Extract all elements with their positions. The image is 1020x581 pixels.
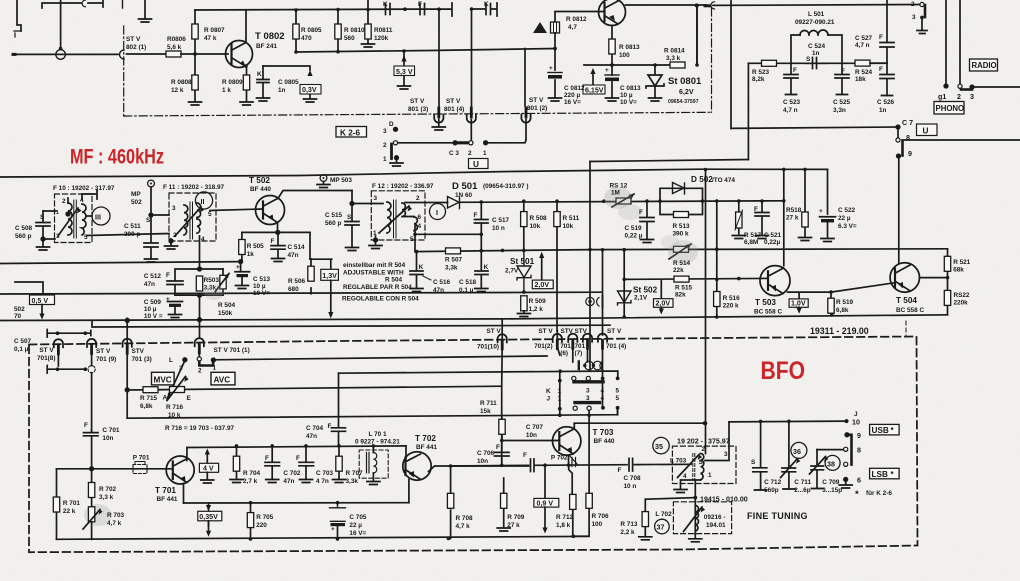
wire rail W2 to STV801(2) [524,49,526,107]
capacitor C514 [271,232,285,258]
wire yC base row [624,278,767,279]
capacitor C712 [753,421,767,489]
L702 winding [695,506,698,532]
svg-text:4: 4 [201,236,205,243]
resistor R0806 [166,51,181,57]
svg-text:6: 6 [857,477,861,485]
svg-text:120k: 120k [374,35,389,42]
svg-text:+: + [819,208,823,215]
svg-text:R 716: R 716 [166,404,183,411]
wire L703 pin4 ground [681,480,701,489]
svg-text:801 (2): 801 (2) [527,105,547,112]
svg-text:R 523: R 523 [752,69,769,76]
svg-text:C 516: C 516 [433,279,450,286]
svg-text:S: S [40,214,45,221]
svg-text:R 509: R 509 [529,298,546,305]
svg-text:375.97: 375.97 [708,438,730,446]
svg-text:g1: g1 [938,93,946,101]
svg-text:R 705: R 705 [256,514,273,521]
resistor R711 [501,418,503,440]
wire 701(10) drop [501,320,504,466]
transformer F12 box [371,191,425,240]
svg-text:701 (4): 701 (4) [606,343,626,350]
wire input line [15,53,118,55]
svg-text:R 715: R 715 [140,395,157,402]
resistor R0805 [295,10,297,52]
svg-text:D: D [389,121,394,128]
wire top-left stub [17,0,21,31]
svg-text:S: S [751,459,756,466]
wire T703 collector [573,423,575,428]
svg-text:2: 2 [62,198,66,205]
svg-text:S: S [806,56,811,63]
svg-text:R 702: R 702 [99,486,116,493]
svg-text:701(10): 701(10) [477,344,499,351]
svg-text:1: 1 [558,388,562,395]
wire C517-C518 link [480,234,482,250]
capacitor C517 [475,202,489,234]
resistor R0809 [243,75,249,90]
ground C508 [37,247,50,250]
wire C709 to pin8 [817,449,843,451]
svg-text:47n: 47n [144,281,155,288]
svg-text:C 709: C 709 [822,479,839,486]
svg-text:10: 10 [852,419,860,427]
svg-text:ST V 701 (1): ST V 701 (1) [214,347,250,354]
wire R524 to C526 node [870,62,887,64]
wire T701 collector [186,448,188,461]
wire top rail W1 [195,3,452,16]
resistor R518 [804,169,806,236]
svg-text:5: 5 [616,395,620,402]
svg-text:C 523: C 523 [783,99,800,106]
svg-text:0,22µ: 0,22µ [764,239,780,246]
contact circle pin2 tr [920,2,924,6]
svg-text:3: 3 [172,205,176,212]
svg-text:F 12 : 19202 - 336.97: F 12 : 19202 - 336.97 [372,183,434,190]
node MP circle on input [56,50,66,60]
ground C511 [145,259,158,262]
svg-text:L 703: L 703 [670,458,687,465]
resistor R0814 [670,62,685,68]
svg-text:1n: 1n [812,50,820,57]
svg-text:1n: 1n [879,107,887,114]
svg-text:6,8M: 6,8M [744,239,758,246]
svg-text:0,5 V: 0,5 V [32,297,49,305]
resistor R0810 [337,9,339,51]
svg-text:F: F [793,67,797,74]
svg-text:R 703: R 703 [107,512,124,519]
ground pin6 [845,481,847,484]
measure 0,9V [544,465,546,498]
jumper row J bar [575,401,600,404]
connector STV801(2) bushing [521,108,530,123]
measure arrow 0,5V [15,282,43,295]
capacitor K series on rail [368,0,390,15]
svg-text:STV: STV [575,328,588,335]
resistor R513 [674,212,689,218]
wire F10 to F11 [87,234,169,236]
pin 10 [847,420,848,422]
L703 winding [701,454,704,480]
svg-text:(6): (6) [560,350,568,357]
pin 6 dot [844,478,848,482]
svg-text:2: 2 [911,1,915,8]
svg-text:F: F [618,467,622,474]
svg-text:F: F [879,34,883,41]
wire 701(2) drop [556,331,558,347]
connector STV701(3) [123,339,132,354]
circle III [92,207,110,225]
svg-text:47 k: 47 k [204,35,217,42]
resistor R505 [241,232,243,262]
svg-text:3...15p: 3...15p [822,487,842,494]
svg-text:C 702: C 702 [283,470,300,477]
jumper row K bar [574,380,603,383]
svg-text:REGOLABILE CON R 504: REGOLABILE CON R 504 [342,296,419,303]
node dot C7 [896,125,900,129]
wire R0806 to base node [181,53,228,55]
svg-text:3,3k: 3,3k [445,265,458,272]
svg-text:MP 503: MP 503 [330,177,352,184]
jumper bracket AVC [199,362,213,366]
resistor R515 [674,276,689,282]
svg-text:22 µ: 22 µ [838,215,851,222]
circle 36 [791,442,807,458]
svg-text:3: 3 [970,93,974,101]
svg-text:5: 5 [84,234,88,241]
wire T0802 emitter down [246,66,248,101]
svg-text:C 518: C 518 [459,279,476,286]
svg-text:FINE TUNING: FINE TUNING [747,511,808,521]
svg-text:II: II [201,198,205,206]
svg-text:F: F [84,422,88,429]
measure 2,0V left [541,256,543,280]
wire C515 to F12 [352,203,383,205]
svg-text:2,7V: 2,7V [505,268,519,275]
svg-text:R518: R518 [786,207,802,214]
svg-text:2: 2 [173,232,177,239]
wire C522 drop [827,169,829,214]
svg-text:R 504: R 504 [218,302,235,309]
wire T0802 collector up [245,10,247,41]
dashed module box [29,337,918,553]
svg-text:R 0809: R 0809 [222,79,243,86]
connector pair at 709 [705,4,710,7]
pin 9 dot [845,433,849,437]
svg-text:F: F [523,452,527,459]
zener St501 [517,250,531,292]
dash-dot border bottom [124,112,712,116]
svg-text:4: 4 [601,388,605,395]
wire 701(3) drop [126,318,128,418]
wire R713 row to L702 [645,498,695,500]
wire emitter row y232 [242,231,310,233]
wire 701(8) stub [57,347,59,366]
pin 2-3 connector top right [924,5,927,17]
svg-text:0,35V: 0,35V [199,513,218,521]
svg-text:R 713: R 713 [620,521,637,528]
svg-text:37: 37 [657,524,665,532]
capacitor C515 [345,191,359,247]
svg-text:T 701: T 701 [155,486,176,495]
svg-text:10 V =: 10 V = [144,313,163,320]
svg-text:F: F [841,68,845,75]
ground St0801 [649,98,662,101]
measure MP502 [148,180,155,187]
svg-text:J: J [854,411,858,418]
svg-text:ST V: ST V [529,97,544,104]
resistor R0808 [192,75,198,90]
resistor R715 [143,387,158,393]
svg-text:4: 4 [418,223,422,230]
svg-text:STV: STV [132,348,145,355]
SEC_E [53,373,588,541]
svg-text:3: 3 [374,195,378,202]
svg-text:1,3V: 1,3V [322,272,337,280]
potentiometer R514 [674,246,689,252]
svg-text:C 508: C 508 [15,225,32,232]
wire y388 MVC [127,386,502,390]
svg-text:560p: 560p [764,487,779,494]
contact open 8 [844,447,848,451]
svg-text:4: 4 [601,395,605,402]
wire U out y140 [902,139,1020,141]
capacitor C513 electrolytic [235,271,250,273]
svg-text:C 511: C 511 [124,223,141,230]
diode D501 [448,197,460,209]
resistor R523 [762,60,777,66]
terminal C523 [786,94,797,96]
svg-text:10n: 10n [526,432,537,439]
node dots right IF [601,168,950,425]
arrow 6,15V [590,68,595,74]
svg-text:3: 3 [586,395,590,402]
svg-text:C 3: C 3 [449,150,459,157]
wire T502 emitter [277,224,279,233]
svg-text:USB: USB [872,426,889,435]
svg-text:AVC: AVC [214,376,231,385]
connector at 85,3 [82,0,85,7]
svg-text:502: 502 [131,199,142,206]
svg-text:5: 5 [616,388,620,395]
wire base row T701 [57,468,173,470]
svg-text:3: 3 [383,128,387,135]
potentiometer R716 [170,387,185,393]
svg-text:19311 - 219.00: 19311 - 219.00 [810,326,869,336]
svg-text:F: F [639,209,643,216]
trimmer P701 [133,465,147,474]
svg-text:701(8): 701(8) [37,355,55,362]
svg-text:3: 3 [586,388,590,395]
svg-text:3: 3 [912,14,916,21]
contact open 8 [896,138,900,142]
wire D501 out y201 [460,201,784,203]
resistor R511 [556,201,558,331]
svg-text:0,1 µ: 0,1 µ [459,287,474,294]
potentiometer RS12 [616,198,631,204]
bracket pin 8-9 [901,142,904,156]
capacitor C0813 electrolytic [605,74,619,76]
svg-text:6: 6 [418,214,422,221]
ground C0805 [257,98,270,101]
node dots T701 area [235,444,451,541]
svg-text:F: F [296,455,300,462]
svg-text:1: 1 [56,210,59,216]
connector hook top-left [14,31,21,37]
capacitor C507 row1 [47,330,91,338]
svg-text:R 515: R 515 [675,285,692,292]
svg-text:38: 38 [827,461,835,469]
svg-text:F: F [418,1,422,8]
circle II [195,192,212,209]
capacitor C516 [410,252,423,288]
capacitor C512 [167,269,200,295]
svg-text:R 519: R 519 [836,299,853,306]
wire T703 emitter [568,455,570,465]
capacitor C521 [755,201,769,234]
svg-text:R 504: R 504 [385,277,402,284]
svg-text:16 V=: 16 V= [564,99,581,106]
inline connector pair x590 [586,297,594,305]
node dot C511 [149,213,153,217]
svg-text:T 504: T 504 [896,296,917,305]
wire wire2 y251 [415,250,590,252]
F12 windings [387,202,391,233]
wire AVC y358 [213,356,547,360]
svg-text:4,7 k: 4,7 k [456,523,471,530]
svg-text:RS 12: RS 12 [610,183,628,190]
svg-text:T 703: T 703 [593,428,614,437]
svg-text:220 µ: 220 µ [564,92,580,99]
C709 arrow [810,457,826,475]
capacitor C524 series [805,58,827,69]
contact dot L [183,358,187,362]
L703 trimmer arrow [678,455,700,478]
wire 701(1) link [198,345,200,357]
wire vertical x60 [60,0,62,50]
svg-text:R 0813: R 0813 [619,44,640,51]
svg-text:10k: 10k [563,223,574,230]
svg-text:701 (3): 701 (3) [132,356,152,363]
label box 1,3V [321,269,339,280]
node dots sec A2 [553,4,924,67]
SEC_C [0,180,948,337]
wire L501 row y63 [748,62,887,64]
svg-text:F: F [754,206,758,213]
resistor R506 [310,232,311,293]
wire T503 emitter row [788,283,894,292]
svg-text:T 502: T 502 [249,176,270,185]
ground 0,3V [304,99,317,102]
svg-text:2: 2 [198,368,202,375]
F10 pin4 terminal [82,190,97,199]
svg-text:+: + [236,264,240,271]
wire 5,3V arrow [403,52,405,85]
wire y417 [127,410,617,418]
wire STV801(3) drop [438,9,440,106]
svg-text:36: 36 [793,448,801,456]
svg-text:1: 1 [213,365,217,372]
svg-text:R 511: R 511 [563,215,580,222]
svg-text:10 V=: 10 V= [253,290,270,297]
wire 701(6) drop [572,342,574,363]
wire phono out [972,86,1020,88]
measure MP503 [320,175,327,182]
svg-text:C 703: C 703 [316,470,333,477]
capacitor C707 series [531,459,535,472]
label box AVC [211,372,235,385]
wire R516 drop [716,201,718,317]
node dots R503 net [198,267,202,271]
potentiometer R504 [222,269,224,295]
connector STV701(8) [54,339,63,354]
svg-text:470: 470 [301,35,312,42]
svg-text:C 7: C 7 [902,119,913,127]
svg-text:8,2k: 8,2k [752,76,765,83]
svg-text:10n: 10n [102,435,113,442]
terminal C526 [882,95,893,97]
wire St502 drop [623,250,625,316]
svg-text:REGLABLE PAR R 504: REGLABLE PAR R 504 [343,284,412,291]
svg-text:R 508: R 508 [530,215,547,222]
node dots top block [59,7,474,68]
label box 5,3V [394,66,415,76]
resistor R517 hatched [738,201,740,234]
ground K2-6 pin1 [396,159,398,162]
svg-text:ST V: ST V [487,328,502,335]
capacitor C708 series [629,458,633,471]
ground R517 [732,236,745,239]
wire C7 to pin8 [897,128,899,138]
svg-text:10 µ: 10 µ [253,283,266,290]
svg-text:C 0805: C 0805 [278,79,299,86]
svg-text:ST V: ST V [126,36,141,43]
wire x590 long vertical [589,162,591,372]
capacitor K series right [486,4,491,15]
terminal C525 [837,94,848,96]
dash-dot border vertical right [711,8,713,112]
label box U [469,159,489,169]
capacitor C511 [144,215,158,258]
node dots center [413,199,592,294]
svg-text:F: F [265,455,269,462]
svg-text:R 716 = 19 703 - 037.97: R 716 = 19 703 - 037.97 [165,425,235,432]
svg-text:R0811: R0811 [374,27,393,34]
svg-text:8: 8 [857,447,861,455]
svg-text:5,3 V: 5,3 V [396,68,413,76]
wire L703 pin1 drop [694,480,696,484]
svg-text:19415 - 010.00: 19415 - 010.00 [700,496,748,504]
svg-text:1 k: 1 k [222,87,231,94]
wire bus y320 [0,315,948,321]
wire MP502 drop [151,187,169,215]
svg-text:3,3 k: 3,3 k [666,55,681,62]
svg-text:390 k: 390 k [673,231,689,238]
svg-text:P 701: P 701 [133,455,150,462]
svg-text:5,6 k: 5,6 k [167,44,182,51]
svg-text:C 509: C 509 [144,299,161,306]
svg-text:2: 2 [383,142,387,149]
svg-text:A: A [163,395,168,402]
svg-text:R 517: R 517 [744,232,761,239]
ground C0812 [549,98,562,101]
contact dot g1 [944,84,948,88]
capacitor C706 [495,452,510,465]
resistor R701 [53,497,59,512]
resistor R708 [447,493,453,508]
svg-text:St 501: St 501 [510,257,535,266]
